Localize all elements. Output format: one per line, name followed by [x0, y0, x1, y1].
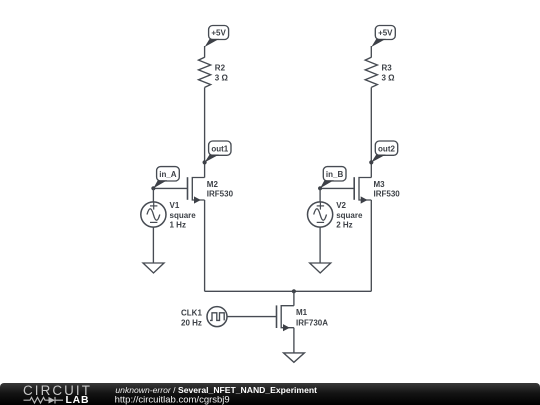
ground (under V2)	[310, 263, 331, 273]
wire M2 source down	[204, 200, 206, 291]
net flag in_B	[320, 167, 346, 189]
net flag +5V (left)	[205, 26, 229, 48]
svg-text:in_B: in_B	[326, 170, 344, 179]
wire M3 gate	[320, 187, 354, 189]
svg-text:CLK1: CLK1	[181, 309, 202, 318]
voltage source V1	[141, 202, 166, 227]
svg-text:M3: M3	[374, 180, 386, 189]
junction node in_B / V2 / gate	[318, 186, 322, 190]
svg-text:2 Hz: 2 Hz	[336, 221, 352, 230]
wire M2 gate	[153, 187, 187, 189]
svg-text:IRF530: IRF530	[374, 189, 401, 198]
svg-text:1 Hz: 1 Hz	[170, 221, 186, 230]
svg-text:+5V: +5V	[211, 29, 226, 38]
net flag out2	[371, 141, 397, 162]
resistor R3	[365, 57, 377, 87]
label M1 IRF730A	[296, 308, 328, 328]
wire +5V to R2 top	[204, 46, 206, 58]
label R2 value 3 ohm	[215, 63, 229, 82]
svg-text:3 Ω: 3 Ω	[382, 74, 396, 83]
svg-text:R3: R3	[382, 63, 393, 72]
svg-text:LAB: LAB	[66, 395, 90, 405]
wire M1 gate	[227, 316, 277, 318]
label M3 IRF530	[374, 180, 401, 198]
transistor M2	[188, 177, 205, 203]
wire common source rail	[205, 290, 372, 292]
svg-text:in_A: in_A	[159, 170, 177, 179]
junction node out2	[369, 160, 373, 164]
svg-text:unknown-error / Several_NFET_N: unknown-error / Several_NFET_NAND_Experi…	[115, 385, 317, 395]
wire M1 drain lead	[293, 291, 295, 305]
svg-text:IRF530: IRF530	[207, 189, 234, 198]
svg-text:square: square	[336, 211, 363, 220]
label R3 value 3 ohm	[382, 63, 396, 82]
svg-text:20 Hz: 20 Hz	[181, 319, 202, 328]
label M2 IRF530	[207, 180, 234, 198]
svg-text:+5V: +5V	[378, 29, 393, 38]
svg-text:out1: out1	[211, 144, 228, 153]
voltage source V2	[308, 202, 333, 227]
wire V1 minus to ground	[152, 227, 154, 263]
footer bar	[0, 383, 540, 405]
transistor M3	[354, 177, 371, 203]
net flag in_A	[153, 167, 179, 189]
svg-text:V1: V1	[170, 201, 180, 210]
label V1 square 1 Hz	[170, 201, 197, 230]
wire M3 source down	[370, 200, 372, 291]
resistor R2	[199, 57, 211, 87]
svg-text:IRF730A: IRF730A	[296, 318, 328, 327]
wire R2 bottom to M2 drain	[204, 87, 206, 177]
net flag out1	[205, 141, 231, 162]
clock source CLK1	[207, 307, 227, 327]
wire +5V to R3 top	[370, 46, 372, 58]
transistor M1	[277, 305, 294, 331]
svg-text:square: square	[170, 211, 197, 220]
svg-text:R2: R2	[215, 63, 226, 72]
wire V2 minus to ground	[319, 227, 321, 263]
ground (under V1)	[143, 263, 164, 273]
junction node in_A / V1 / gate	[151, 186, 155, 190]
ground (under M1)	[284, 353, 305, 362]
CircuitLab logo resistor-diode squiggle	[24, 397, 64, 404]
svg-text:http://circuitlab.com/cgrsbj9: http://circuitlab.com/cgrsbj9	[115, 395, 230, 405]
junction node out1	[203, 160, 207, 164]
wire in_B node to V2 plus	[319, 188, 321, 202]
wire R3 bottom to M3 drain	[370, 87, 372, 177]
label CLK1 20 Hz	[181, 309, 202, 328]
svg-text:M1: M1	[296, 308, 308, 317]
wire in_A node to V1 plus	[152, 188, 154, 202]
svg-text:3 Ω: 3 Ω	[215, 74, 229, 83]
label V2 square 2 Hz	[336, 201, 363, 230]
svg-text:out2: out2	[378, 144, 395, 153]
wire M1 source to ground	[293, 328, 295, 353]
svg-text:V2: V2	[336, 201, 346, 210]
junction node M1 drain	[292, 289, 296, 293]
net flag +5V (right)	[371, 26, 395, 48]
svg-text:M2: M2	[207, 180, 219, 189]
